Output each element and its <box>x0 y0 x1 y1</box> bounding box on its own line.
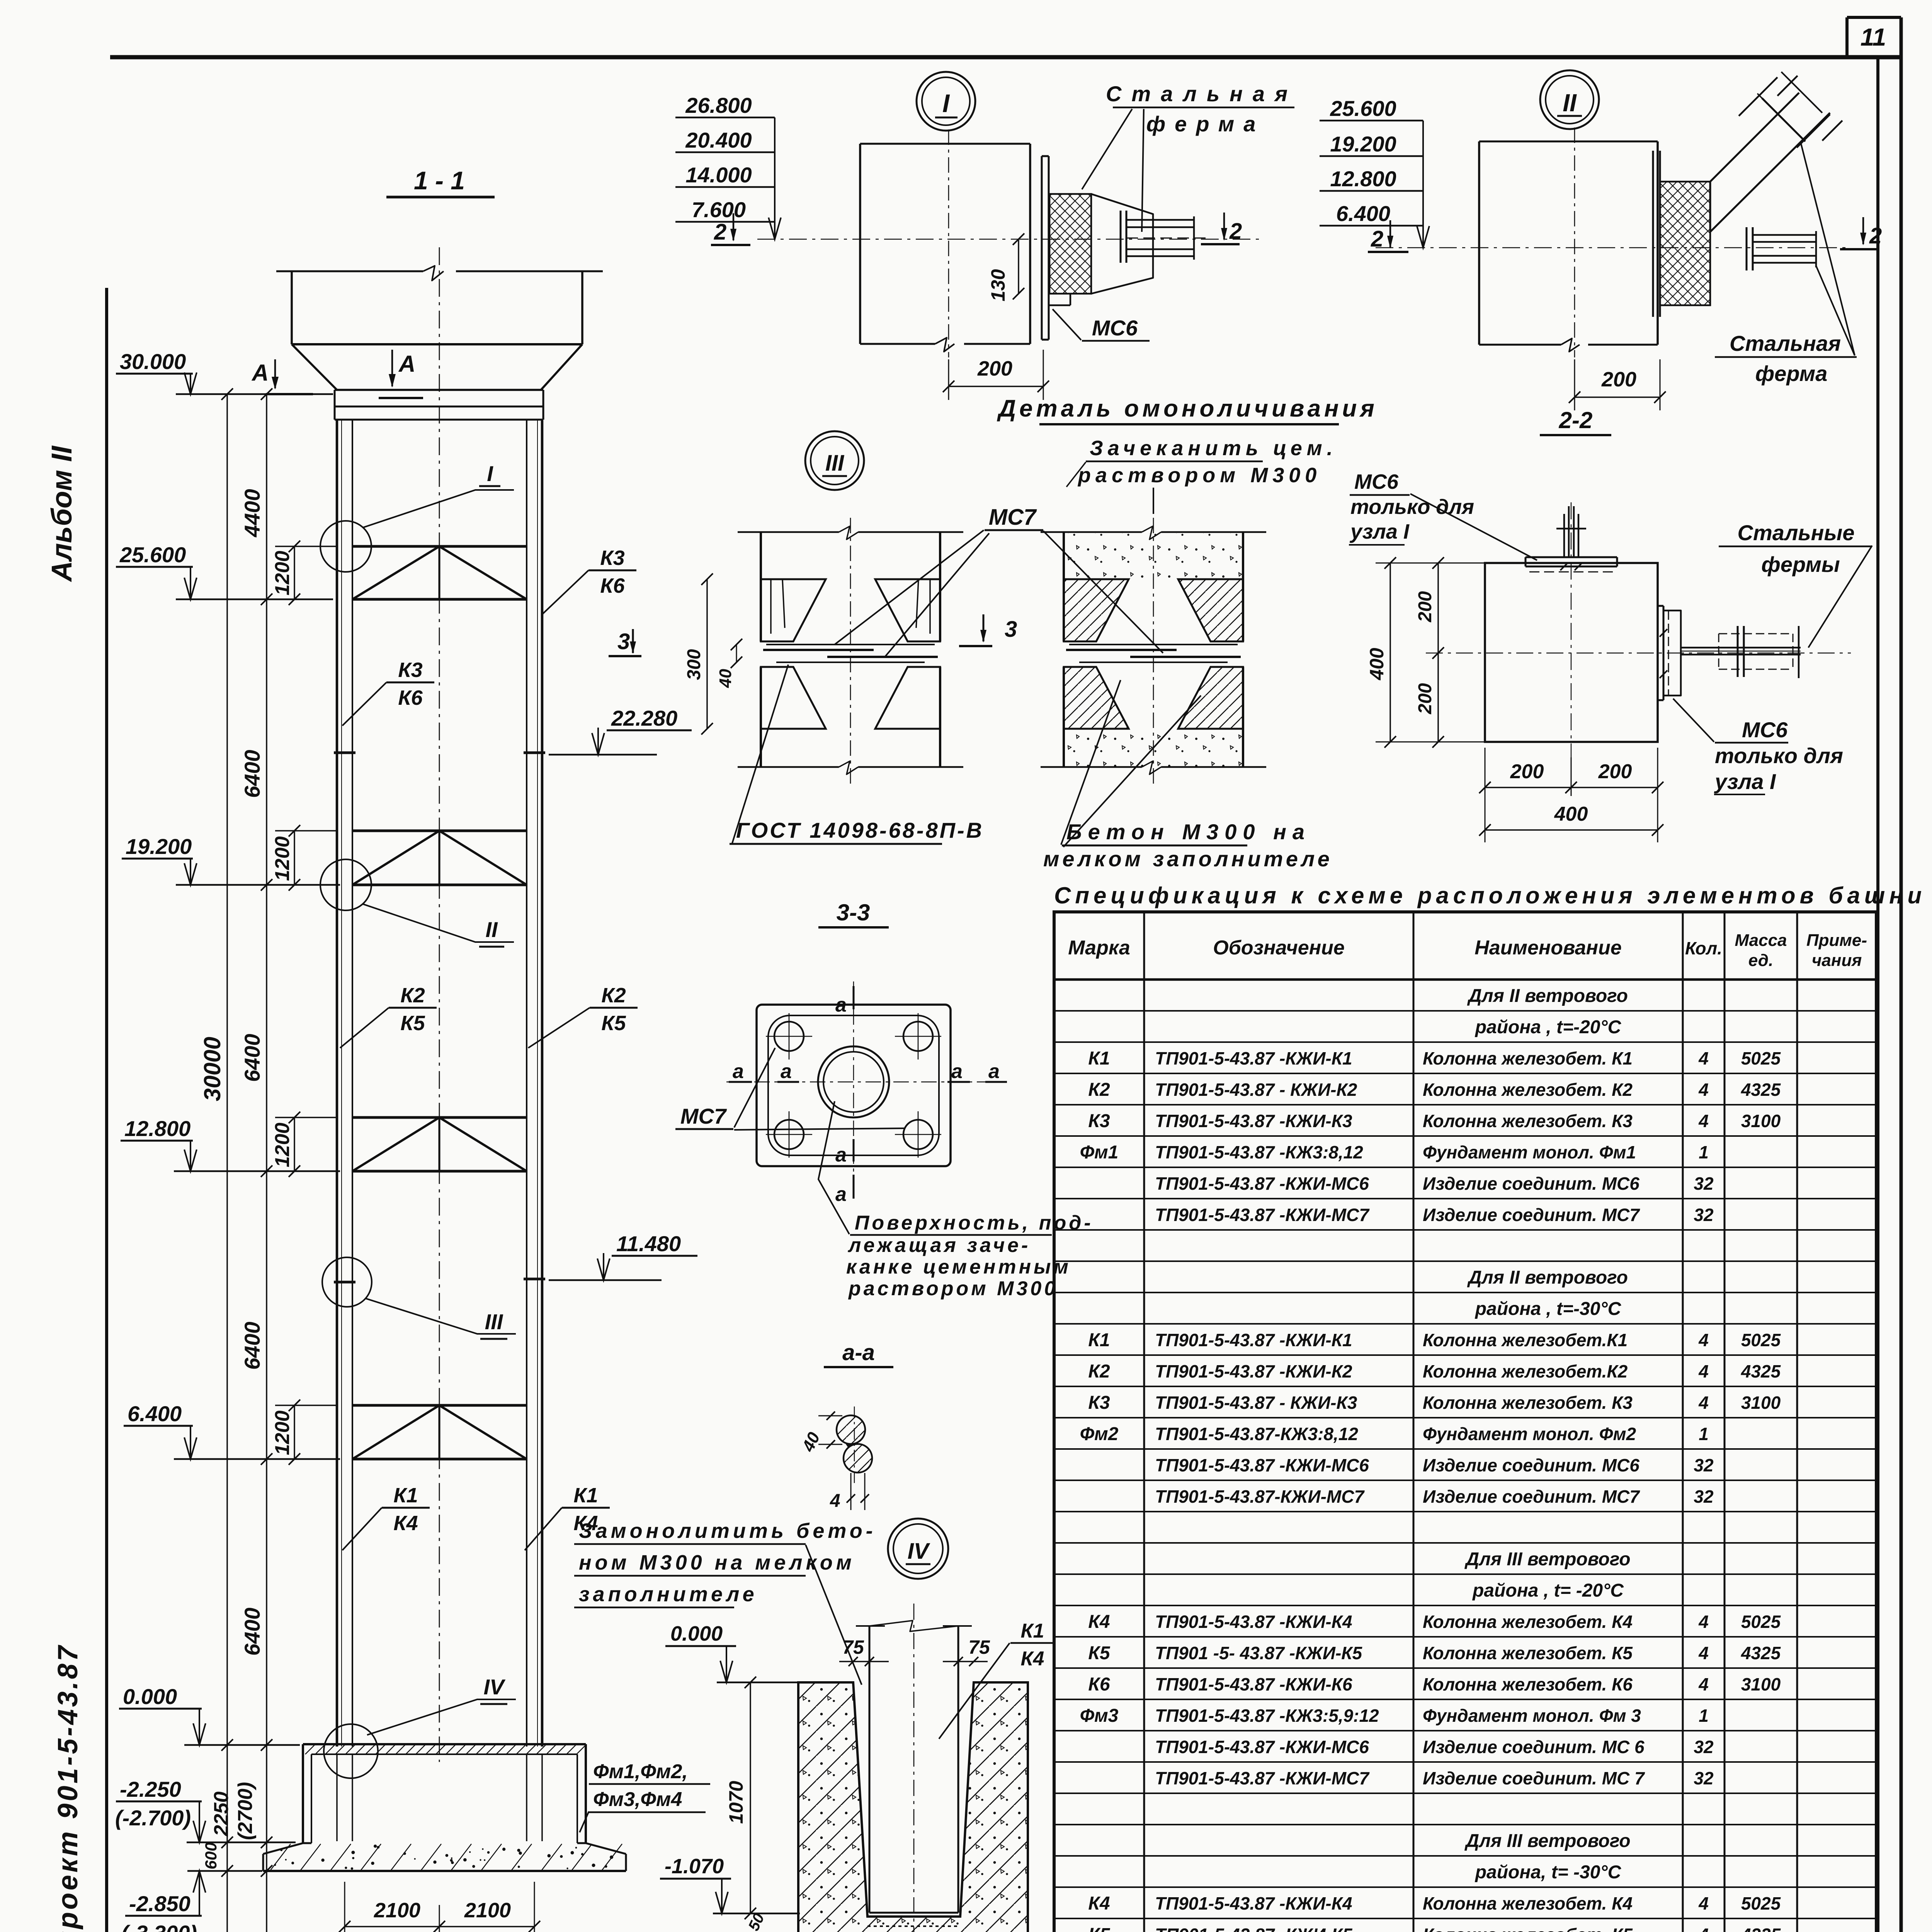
svg-text:32: 32 <box>1694 1205 1714 1225</box>
detail II console hatched <box>1660 182 1710 305</box>
label K2/K5 left <box>340 984 437 1048</box>
svg-text:ТП901-5-43.87 -КЖИ-К4: ТП901-5-43.87 -КЖИ-К4 <box>1155 1612 1352 1632</box>
svg-text:19.200: 19.200 <box>1330 132 1396 156</box>
svg-text:ТП901-5-43.87 -КЖИ-К6: ТП901-5-43.87 -КЖИ-К6 <box>1155 1674 1352 1694</box>
2-2 label Стальные фермы <box>1719 520 1872 648</box>
svg-text:Типовой проект 901-5-43.87: Типовой проект 901-5-43.87 <box>53 1643 83 1932</box>
detail III section mark 3 right <box>959 614 1017 646</box>
detail II diagonal truss member <box>1710 72 1842 232</box>
svg-text:К6: К6 <box>600 574 625 597</box>
label K1/K4 left <box>342 1484 430 1550</box>
svg-text:ТП901-5-43.87 - КЖИ-К2: ТП901-5-43.87 - КЖИ-К2 <box>1155 1080 1357 1100</box>
detail I dim 200 <box>943 350 1049 400</box>
svg-text:1200: 1200 <box>271 1410 294 1455</box>
svg-text:а: а <box>835 1144 847 1166</box>
svg-text:Для II ветрового: Для II ветрового <box>1467 986 1628 1006</box>
2-2 label MC6 только для узла I (bottom right) <box>1673 699 1843 794</box>
svg-text:5025: 5025 <box>1741 1330 1781 1350</box>
spec rows section 1 <box>1080 1048 1781 1225</box>
svg-text:Изделие соединит. МС6: Изделие соединит. МС6 <box>1423 1455 1639 1475</box>
detail IV level -1.070 <box>660 1855 800 1913</box>
2-2 left dim chain 400/200/200 <box>1366 557 1490 748</box>
detail IV circle <box>888 1519 948 1579</box>
svg-text:1: 1 <box>1699 1424 1709 1444</box>
svg-text:1200: 1200 <box>271 551 294 595</box>
svg-text:ТП901-5-43.87 -КЖИ-МС7: ТП901-5-43.87 -КЖИ-МС7 <box>1155 1205 1370 1225</box>
2-2 label MC6 только для узла I (top left) <box>1349 470 1537 560</box>
3-3 center pipe circle <box>818 1046 889 1117</box>
truss at level 12.800 <box>352 1117 527 1171</box>
svg-text:III: III <box>825 451 845 476</box>
svg-text:Колонна железобет. К4: Колонна железобет. К4 <box>1423 1893 1633 1913</box>
svg-text:32: 32 <box>1694 1173 1714 1194</box>
svg-text:11: 11 <box>1861 23 1886 51</box>
detail IV column K1/K4 <box>856 1604 972 1932</box>
detail II dim 200 <box>1569 359 1666 410</box>
svg-text:ед.: ед. <box>1748 951 1773 970</box>
svg-text:12.800: 12.800 <box>124 1116 190 1141</box>
elevation mark 12.800 <box>121 1116 340 1171</box>
svg-text:Стальные: Стальные <box>1738 520 1855 545</box>
svg-text:1: 1 <box>1699 1706 1709 1726</box>
column splice joint at 22.280 <box>334 752 355 754</box>
svg-text:Приме-: Приме- <box>1806 931 1867 950</box>
svg-text:Бетон М300 на: Бетон М300 на <box>1066 820 1311 844</box>
svg-text:К1: К1 <box>1088 1048 1110 1069</box>
svg-text:6.400: 6.400 <box>1336 201 1390 226</box>
elevation mark -2.850 (-3.300) <box>121 1871 262 1932</box>
svg-text:1 - 1: 1 - 1 <box>414 166 465 195</box>
label Fm1,Fm2 / Fm3,Fm4 <box>580 1760 710 1832</box>
svg-text:МС6: МС6 <box>1354 470 1399 493</box>
svg-text:-1.120: -1.120 <box>662 1929 721 1932</box>
svg-text:Замонолитить бето-: Замонолитить бето- <box>579 1519 876 1543</box>
dim 1200 truss 3 <box>271 1112 336 1177</box>
svg-text:4325: 4325 <box>1741 1925 1781 1932</box>
2-2 steel truss rod <box>1681 626 1801 678</box>
node circle detail I <box>320 521 371 572</box>
svg-text:2100: 2100 <box>464 1899 511 1922</box>
svg-text:III: III <box>485 1310 503 1334</box>
svg-text:-2.850: -2.850 <box>129 1891 190 1916</box>
detail III dims 300/40 <box>684 573 742 735</box>
svg-text:Поверхность, под-: Поверхность, под- <box>855 1212 1094 1234</box>
svg-text:30000: 30000 <box>199 1037 225 1101</box>
svg-text:ТП901-5-43.87 -КЖИ-МС7: ТП901-5-43.87 -КЖИ-МС7 <box>1155 1768 1370 1788</box>
detail II section mark 2 left <box>1368 220 1408 252</box>
detail IV dim 1070 <box>725 1677 756 1919</box>
svg-text:ТП901-5-43.87 -КЖИ-К5: ТП901-5-43.87 -КЖИ-К5 <box>1155 1925 1353 1932</box>
svg-text:раствором М300: раствором М300 <box>1077 464 1321 487</box>
svg-text:К4: К4 <box>1088 1612 1110 1632</box>
svg-text:6400: 6400 <box>240 1034 264 1082</box>
svg-text:ТП901-5-43.87 -КЖИ-К1: ТП901-5-43.87 -КЖИ-К1 <box>1155 1048 1352 1068</box>
detail II elevation stack 25.600/19.200/12.800/6.400 <box>1320 96 1429 248</box>
svg-text:2100: 2100 <box>374 1899 420 1922</box>
a-a dims 40 / 4 <box>798 1412 869 1511</box>
svg-text:Стальная: Стальная <box>1106 82 1298 106</box>
detail I steel truss stub <box>1121 211 1206 263</box>
elevation mark 22.280 right <box>549 706 692 755</box>
svg-text:Колонна железобет. К3: Колонна железобет. К3 <box>1423 1393 1633 1413</box>
svg-text:1: 1 <box>1699 1142 1709 1162</box>
svg-text:Деталь омоноличивания: Деталь омоноличивания <box>997 395 1378 422</box>
svg-text:ГОСТ 14098-68-8П-В: ГОСТ 14098-68-8П-В <box>736 818 984 842</box>
elevation mark 0.000 <box>119 1684 300 1745</box>
svg-text:IV: IV <box>908 1539 930 1564</box>
svg-text:ТП901-5-43.87 -КЖИ-МС6: ТП901-5-43.87 -КЖИ-МС6 <box>1155 1737 1369 1757</box>
foundation footing <box>263 1843 626 1871</box>
svg-text:а: а <box>733 1060 744 1083</box>
heading Деталь омоноличивания <box>997 395 1378 424</box>
svg-text:-2.250: -2.250 <box>120 1777 181 1801</box>
svg-text:400: 400 <box>1366 648 1388 680</box>
svg-text:Колонна железобет. К6: Колонна железобет. К6 <box>1423 1674 1633 1694</box>
svg-text:Колонна железобет. К5: Колонна железобет. К5 <box>1423 1925 1633 1932</box>
note Зачеканить цем. раствором М300 <box>1066 437 1337 514</box>
svg-text:40: 40 <box>716 669 735 688</box>
svg-text:узла I: узла I <box>1349 520 1410 543</box>
svg-text:Фундамент монол. Фм1: Фундамент монол. Фм1 <box>1423 1142 1636 1162</box>
spec rows section 4 <box>1080 1893 1781 1932</box>
svg-text:0.000: 0.000 <box>670 1622 723 1645</box>
svg-text:А: А <box>398 351 415 377</box>
detail III splice view (grouted) <box>1064 533 1243 767</box>
detail II circle <box>1540 70 1599 129</box>
svg-text:ферма: ферма <box>1755 361 1828 386</box>
svg-text:6400: 6400 <box>240 1321 264 1370</box>
label K1/K4 right <box>525 1484 610 1550</box>
svg-text:32: 32 <box>1694 1768 1714 1788</box>
svg-text:Колонна железобет. К1: Колонна железобет. К1 <box>1423 1048 1633 1068</box>
svg-text:600: 600 <box>202 1842 220 1869</box>
svg-text:ферма: ферма <box>1146 112 1265 136</box>
detail III label MC7 <box>835 505 1163 657</box>
svg-text:Изделие соединит. МС7: Изделие соединит. МС7 <box>1423 1205 1640 1225</box>
svg-text:4: 4 <box>1698 1361 1709 1381</box>
svg-text:К1: К1 <box>573 1484 598 1507</box>
svg-text:К5: К5 <box>400 1012 425 1035</box>
svg-text:Колонна железобет. К3: Колонна железобет. К3 <box>1423 1111 1633 1131</box>
svg-text:К5: К5 <box>1088 1643 1111 1663</box>
leader and label III <box>365 1298 516 1339</box>
svg-text:К3: К3 <box>1088 1111 1110 1131</box>
svg-text:19.200: 19.200 <box>126 834 192 859</box>
svg-text:4: 4 <box>1698 1925 1709 1932</box>
column left (K1-K3) <box>337 420 352 1747</box>
svg-text:32: 32 <box>1694 1455 1714 1475</box>
3-3 inner contour <box>768 1015 939 1155</box>
svg-text:К4: К4 <box>393 1512 418 1535</box>
heading 3-3 <box>818 900 889 927</box>
svg-text:IV: IV <box>484 1675 506 1699</box>
svg-text:МС7: МС7 <box>989 505 1037 530</box>
svg-text:4: 4 <box>1698 1643 1709 1663</box>
svg-text:200: 200 <box>1598 760 1632 783</box>
elevation mark 19.200 <box>122 834 340 885</box>
svg-text:ТП901-5-43.87 -КЖ3:5,9:12: ТП901-5-43.87 -КЖ3:5,9:12 <box>1155 1706 1379 1726</box>
grout hatch band on pedestal top <box>305 1744 587 1754</box>
column right (K4-K6) <box>527 420 542 1747</box>
svg-text:а: а <box>781 1060 792 1083</box>
elevation mark 6.400 <box>124 1401 340 1459</box>
detail I console (hatched) <box>1049 194 1153 294</box>
svg-text:узла I: узла I <box>1714 769 1776 794</box>
svg-text:а: а <box>951 1060 963 1083</box>
detail II column <box>1376 128 1851 357</box>
2-2 bottom dim 200/200 and 400 <box>1479 748 1663 842</box>
detail II label Стальная ферма <box>1715 142 1857 386</box>
svg-text:а: а <box>988 1060 1000 1083</box>
svg-text:К3: К3 <box>1088 1393 1110 1413</box>
svg-text:200: 200 <box>1415 591 1435 622</box>
svg-text:ТП901-5-43.87 -КЖИ-К1: ТП901-5-43.87 -КЖИ-К1 <box>1155 1330 1352 1350</box>
svg-text:2: 2 <box>1229 219 1242 244</box>
detail I dim 130 <box>987 233 1024 301</box>
spec table grid <box>1054 912 1876 1932</box>
svg-text:Для II ветрового: Для II ветрового <box>1467 1267 1628 1288</box>
svg-text:Колонна железобет.К1: Колонна железобет.К1 <box>1423 1330 1628 1350</box>
detail III splice view (welded) <box>738 518 963 788</box>
2-2 centerlines <box>1426 502 1851 777</box>
svg-text:заполнителе: заполнителе <box>579 1583 758 1606</box>
note Замонолитить бетоном М300 <box>574 1519 876 1685</box>
dim 2100/2100 under foundation <box>339 1882 540 1932</box>
2-2 column square <box>1485 563 1658 742</box>
svg-text:30.000: 30.000 <box>120 349 186 374</box>
svg-text:4: 4 <box>1698 1893 1709 1913</box>
svg-text:К2: К2 <box>601 984 626 1007</box>
svg-text:(2700): (2700) <box>234 1782 257 1840</box>
truss at level 25.600 <box>352 546 527 599</box>
detail I section mark 2 left <box>711 213 750 245</box>
dim 2250(2700) and 600 rotated <box>202 1782 257 1869</box>
svg-text:ТП901-5-43.87-КЖ3:8,12: ТП901-5-43.87-КЖ3:8,12 <box>1155 1424 1358 1444</box>
svg-text:2: 2 <box>714 219 726 245</box>
svg-text:300: 300 <box>684 649 704 680</box>
svg-text:4: 4 <box>1698 1111 1709 1131</box>
svg-text:26.800: 26.800 <box>685 93 752 117</box>
svg-text:200: 200 <box>1510 760 1544 783</box>
svg-text:II: II <box>485 917 498 942</box>
foundation pedestal <box>303 1744 586 1843</box>
leader and label IV <box>367 1675 516 1735</box>
svg-text:14.000: 14.000 <box>685 163 752 187</box>
svg-text:Кол.: Кол. <box>1685 938 1722 958</box>
svg-text:Стальная: Стальная <box>1730 331 1841 355</box>
detail II section mark 2 right <box>1840 217 1882 249</box>
column splice joint at 11.480 <box>334 1281 355 1284</box>
svg-text:Колонна железобет. К5: Колонна железобет. К5 <box>1423 1643 1633 1663</box>
svg-text:20.400: 20.400 <box>685 128 752 152</box>
elevation mark 30.000 <box>116 349 333 394</box>
svg-text:Фм2: Фм2 <box>1080 1424 1119 1444</box>
svg-text:ТП901-5-43.87 - КЖИ-К3: ТП901-5-43.87 - КЖИ-К3 <box>1155 1393 1357 1413</box>
detail IV grout under column <box>867 1925 960 1927</box>
svg-text:Спецификация к схеме расположе: Спецификация к схеме расположения элемен… <box>1054 883 1926 908</box>
svg-text:К4: К4 <box>1088 1893 1110 1914</box>
tower center axis <box>439 247 440 1762</box>
svg-text:75: 75 <box>842 1636 864 1658</box>
svg-text:II: II <box>1563 89 1577 117</box>
3-3 label MC7 <box>675 1048 904 1130</box>
svg-text:12.800: 12.800 <box>1330 167 1396 191</box>
water tank outline <box>276 266 603 390</box>
detail I circle <box>917 72 975 131</box>
svg-text:3: 3 <box>617 629 630 654</box>
svg-text:1200: 1200 <box>271 1122 294 1167</box>
svg-text:К3: К3 <box>398 658 422 682</box>
svg-text:ТП901-5-43.87 -КЖ3:8,12: ТП901-5-43.87 -КЖ3:8,12 <box>1155 1142 1363 1162</box>
svg-text:I: I <box>487 461 493 486</box>
svg-text:2: 2 <box>1869 223 1882 248</box>
svg-text:130: 130 <box>987 269 1009 301</box>
3-3 centerlines <box>726 981 989 1194</box>
svg-text:ТП901-5-43.87 -КЖИ-МС6: ТП901-5-43.87 -КЖИ-МС6 <box>1155 1455 1369 1475</box>
node circle detail III <box>322 1257 372 1307</box>
svg-text:К6: К6 <box>1088 1674 1110 1695</box>
svg-text:Наименование: Наименование <box>1475 937 1622 959</box>
svg-text:6400: 6400 <box>240 1607 264 1656</box>
detail IV level -1.120 <box>658 1911 800 1932</box>
elevation mark 25.600 <box>116 543 333 599</box>
3-3 outer square <box>757 1005 951 1166</box>
svg-text:К1: К1 <box>393 1484 418 1507</box>
svg-text:3-3: 3-3 <box>837 900 870 925</box>
detail I label MC6 <box>1053 309 1150 341</box>
label K3/K6 right <box>542 546 636 614</box>
svg-text:Для III ветрового: Для III ветрового <box>1464 1549 1630 1570</box>
label K2/K5 right <box>528 984 638 1048</box>
truss at level 6.400 <box>352 1405 527 1459</box>
svg-text:1200: 1200 <box>271 836 294 881</box>
svg-text:Фундамент монол. Фм 3: Фундамент монол. Фм 3 <box>1423 1706 1641 1726</box>
dim chain line 30000 <box>199 388 233 1932</box>
svg-text:Фм3,Фм4: Фм3,Фм4 <box>593 1788 682 1811</box>
svg-text:Изделие соединит. МС 7: Изделие соединит. МС 7 <box>1423 1768 1645 1788</box>
svg-text:К2: К2 <box>1088 1361 1110 1382</box>
svg-text:32: 32 <box>1694 1486 1714 1507</box>
svg-text:4325: 4325 <box>1741 1361 1781 1381</box>
svg-text:Изделие соединит. МС 6: Изделие соединит. МС 6 <box>1423 1737 1645 1757</box>
svg-text:ном М300 на мелком: ном М300 на мелком <box>579 1551 855 1574</box>
svg-text:мелком заполнителе: мелком заполнителе <box>1043 847 1333 871</box>
svg-text:6400: 6400 <box>240 750 264 798</box>
svg-text:а: а <box>835 1183 847 1206</box>
svg-text:только для: только для <box>1350 495 1474 519</box>
svg-text:К6: К6 <box>398 686 423 709</box>
svg-text:района , t=-20°С: района , t=-20°С <box>1475 1017 1622 1037</box>
3-3 corner circles <box>766 1013 941 1158</box>
detail III circle <box>805 431 864 490</box>
columns into pedestal <box>337 1754 542 1841</box>
svg-text:4: 4 <box>1698 1393 1709 1413</box>
column splice joint right at 22.280 <box>524 752 545 754</box>
svg-text:25.600: 25.600 <box>119 543 186 567</box>
3-3 a-a cut marks <box>729 986 1007 1206</box>
svg-text:чания: чания <box>1812 951 1862 970</box>
svg-text:Альбом II: Альбом II <box>46 446 78 582</box>
svg-text:4325: 4325 <box>1741 1080 1781 1100</box>
column splice joint right at 11.480 <box>524 1278 545 1281</box>
heading a-a <box>824 1340 893 1367</box>
detail II embedded plate <box>1653 151 1660 317</box>
svg-text:района, t= -30°С: района, t= -30°С <box>1475 1862 1622 1883</box>
svg-text:(-3.300): (-3.300) <box>121 1921 197 1932</box>
svg-text:лежащая заче-: лежащая заче- <box>847 1234 1031 1257</box>
svg-text:Для III ветрового: Для III ветрового <box>1464 1831 1630 1851</box>
svg-text:района , t=-30°С: района , t=-30°С <box>1475 1299 1622 1319</box>
svg-text:6.400: 6.400 <box>128 1401 182 1426</box>
svg-text:4: 4 <box>1698 1330 1709 1350</box>
svg-text:1070: 1070 <box>725 1781 747 1824</box>
section mark А left <box>251 359 313 394</box>
dim 1200 truss 1 <box>271 541 336 605</box>
detail IV label K1/K4 <box>939 1620 1055 1739</box>
svg-text:Фм3: Фм3 <box>1080 1706 1119 1726</box>
section mark А middle <box>379 350 423 398</box>
svg-text:ТП901-5-43.87 -КЖИ-К3: ТП901-5-43.87 -КЖИ-К3 <box>1155 1111 1352 1131</box>
2-2 top bracket MC6 <box>1526 506 1617 572</box>
detail IV foundation block with hatch <box>798 1682 1028 1932</box>
dim 1200 truss 2 <box>271 825 336 891</box>
section mark 3 (left of tower detail) <box>609 629 641 656</box>
label K3/K6 left <box>342 658 434 726</box>
svg-text:К4: К4 <box>1021 1648 1044 1670</box>
svg-text:0.000: 0.000 <box>123 1684 177 1709</box>
svg-text:а: а <box>835 994 847 1016</box>
spec rows section 3 <box>1080 1612 1781 1788</box>
3-3 note Поверхность подлежащая зачеканке <box>818 1101 1094 1300</box>
svg-text:(-2.700): (-2.700) <box>115 1806 191 1830</box>
svg-text:МС6: МС6 <box>1742 718 1788 742</box>
svg-text:раствором М300: раствором М300 <box>848 1277 1058 1300</box>
svg-text:4325: 4325 <box>1741 1643 1781 1663</box>
heading 2-2 <box>1540 407 1611 435</box>
svg-text:22.280: 22.280 <box>611 706 677 730</box>
svg-text:Марка: Марка <box>1068 937 1130 959</box>
svg-text:Колонна железобет.К2: Колонна железобет.К2 <box>1423 1361 1628 1381</box>
elevation mark 11.480 right <box>549 1231 697 1280</box>
svg-text:А: А <box>251 360 269 386</box>
detail II horizontal stub with flange <box>1747 227 1816 270</box>
svg-text:Обозначение: Обозначение <box>1213 937 1345 959</box>
svg-text:ТП901-5-43.87 -КЖИ-К4: ТП901-5-43.87 -КЖИ-К4 <box>1155 1893 1352 1913</box>
svg-text:Фундамент монол. Фм2: Фундамент монол. Фм2 <box>1423 1424 1636 1444</box>
svg-text:Фм1: Фм1 <box>1080 1142 1119 1163</box>
svg-text:4: 4 <box>1698 1674 1709 1694</box>
svg-text:только для: только для <box>1715 743 1843 768</box>
svg-text:2-2: 2-2 <box>1559 407 1593 433</box>
svg-text:К1: К1 <box>1021 1620 1044 1642</box>
detail I column <box>757 129 1264 357</box>
svg-text:Колонна железобет. К2: Колонна железобет. К2 <box>1423 1080 1633 1100</box>
svg-text:Масса: Масса <box>1735 931 1787 950</box>
elevation mark -2.250 (-2.700) <box>115 1777 296 1842</box>
detail III label GOST 14098-68-8П-В <box>730 665 984 844</box>
svg-text:3: 3 <box>1005 617 1017 642</box>
svg-text:5025: 5025 <box>1741 1048 1781 1068</box>
svg-text:200: 200 <box>977 357 1012 380</box>
svg-text:К5: К5 <box>601 1012 626 1035</box>
svg-text:К1: К1 <box>1088 1330 1110 1350</box>
detail I section mark 2 right <box>1201 213 1242 244</box>
svg-text:Фм1,Фм2,: Фм1,Фм2, <box>593 1760 688 1783</box>
svg-text:I: I <box>942 89 950 117</box>
node circle detail IV <box>324 1724 378 1778</box>
svg-text:фермы: фермы <box>1761 552 1840 577</box>
svg-text:25.600: 25.600 <box>1330 96 1396 121</box>
